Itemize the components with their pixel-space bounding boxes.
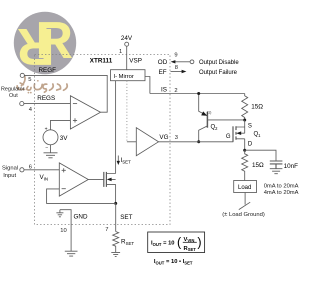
svg-text:4mA to 20mA: 4mA to 20mA <box>264 190 299 196</box>
OD terminal <box>190 60 194 64</box>
wire M1 source to SET <box>115 184 117 203</box>
svg-text:RSET: RSET <box>184 246 197 252</box>
wire to VG amp input <box>127 141 136 143</box>
load box <box>234 181 257 193</box>
svg-text:(1): (1) <box>207 110 212 114</box>
svg-text:15Ω: 15Ω <box>251 103 263 110</box>
terminal VIN <box>20 168 24 172</box>
svg-text:D: D <box>248 142 253 148</box>
svg-text:SET: SET <box>120 214 132 221</box>
svg-text:Load: Load <box>238 185 251 191</box>
svg-text:IS: IS <box>161 86 167 93</box>
wire I-Mirror to IS <box>145 77 150 94</box>
svg-text:3: 3 <box>175 135 178 141</box>
wire VIN <box>24 169 59 171</box>
op-amp A1 <box>70 96 100 129</box>
load ground slash <box>239 202 250 209</box>
terminal REGF <box>20 73 24 77</box>
transistor Q2 <box>206 112 208 128</box>
wire A2 output <box>88 178 104 180</box>
wire 3V to ground <box>50 145 52 153</box>
svg-text:IOUT = 10 • ISET: IOUT = 10 • ISET <box>154 259 193 265</box>
svg-text:REGS: REGS <box>37 95 55 102</box>
wire VSP <box>126 46 128 69</box>
ground external <box>65 251 78 256</box>
svg-text:): ) <box>197 236 201 250</box>
watermark logo circle <box>14 12 76 74</box>
node SET <box>114 202 117 205</box>
terminal REGS <box>20 102 24 106</box>
svg-text:S: S <box>248 124 252 130</box>
capacitor 10nF <box>270 161 283 169</box>
svg-text:2: 2 <box>174 88 177 94</box>
EF arrowhead <box>182 70 187 73</box>
op-amp A3 VG driver <box>136 128 158 156</box>
svg-text:ISET: ISET <box>121 157 132 165</box>
svg-text:(: ( <box>177 236 182 250</box>
wire VG <box>159 141 234 143</box>
svg-text:9: 9 <box>174 53 177 59</box>
op-amp A2 <box>59 163 88 196</box>
mosfet Q1 <box>232 126 234 142</box>
svg-text:VSP: VSP <box>129 58 142 65</box>
internal dotted line to VG amp <box>126 81 128 142</box>
node VG Q2 collector <box>197 140 200 143</box>
node IS Q2 emitter <box>197 92 200 95</box>
svg-text:I- Mirror: I- Mirror <box>114 74 134 80</box>
wire REGS <box>24 103 71 105</box>
svg-text:VIN: VIN <box>40 174 49 182</box>
current arrow ISET <box>117 156 119 162</box>
svg-text:XTR111: XTR111 <box>90 58 113 65</box>
svg-text:0mA to 20mA: 0mA to 20mA <box>264 184 299 190</box>
ground capacitor <box>270 169 283 174</box>
svg-text:8: 8 <box>175 65 178 71</box>
ground RSET <box>111 252 120 256</box>
svg-text:REGF: REGF <box>39 67 57 74</box>
svg-text:RSET: RSET <box>121 238 134 246</box>
OD input line <box>174 61 190 63</box>
EF output line <box>171 71 183 73</box>
node D <box>243 149 246 152</box>
svg-text:Input: Input <box>3 173 16 179</box>
svg-text:+: + <box>45 126 48 132</box>
svg-text:1: 1 <box>119 49 122 55</box>
watermark arabic text <box>17 76 67 92</box>
svg-text:(± Load Ground): (± Load Ground) <box>222 212 265 218</box>
wire REGF feedback <box>24 75 107 112</box>
wire A2 feedback <box>47 189 116 204</box>
svg-text:Q2: Q2 <box>211 124 219 131</box>
svg-text:Output Disable: Output Disable <box>199 60 239 66</box>
equation box <box>148 232 205 253</box>
resistor R1 15ohm <box>242 94 248 121</box>
XTR111 dashed boundary <box>35 55 171 225</box>
svg-text:24V: 24V <box>121 35 133 42</box>
svg-text:4: 4 <box>29 107 33 113</box>
svg-text:OD: OD <box>158 59 168 66</box>
ground 3V <box>44 153 58 158</box>
svg-text:EF: EF <box>159 69 167 76</box>
svg-text:G: G <box>226 134 231 140</box>
svg-text:Signal: Signal <box>2 165 18 171</box>
svg-text:Regulator: Regulator <box>1 86 25 92</box>
I-Mirror block <box>111 70 146 81</box>
svg-text:−: − <box>45 145 48 151</box>
wire D to capacitor <box>245 150 276 161</box>
svg-text:10nF: 10nF <box>284 163 299 170</box>
svg-text:Q1: Q1 <box>254 132 262 139</box>
svg-text:6: 6 <box>29 165 32 171</box>
svg-text:3V: 3V <box>60 135 69 142</box>
wire load bottom <box>244 193 246 205</box>
svg-text:10: 10 <box>60 228 66 234</box>
watermark letter R left rotated <box>17 17 55 75</box>
svg-text:IOUT = 10: IOUT = 10 <box>151 241 175 247</box>
3V source <box>43 130 58 145</box>
GND internal symbol <box>56 210 63 217</box>
svg-text:5: 5 <box>28 77 31 83</box>
equation 1 <box>151 236 202 266</box>
svg-text:15Ω: 15Ω <box>252 162 264 169</box>
wire IS <box>150 93 245 95</box>
24V terminal <box>125 42 129 46</box>
svg-text:Output Failure: Output Failure <box>199 70 238 76</box>
svg-text:VG: VG <box>159 134 168 141</box>
mosfet M1 <box>103 172 105 187</box>
svg-text:GND: GND <box>74 213 88 220</box>
wire GND pin <box>60 210 71 252</box>
node S <box>243 119 246 122</box>
resistor R2 15ohm <box>242 150 248 180</box>
svg-text:7: 7 <box>105 227 108 233</box>
resistor RSET <box>113 232 119 253</box>
wire ISET <box>115 81 117 174</box>
svg-text:Out: Out <box>9 93 18 99</box>
OD arrowhead <box>171 60 176 63</box>
wire SET down <box>115 203 117 231</box>
wire 3V to plus input <box>51 120 71 129</box>
